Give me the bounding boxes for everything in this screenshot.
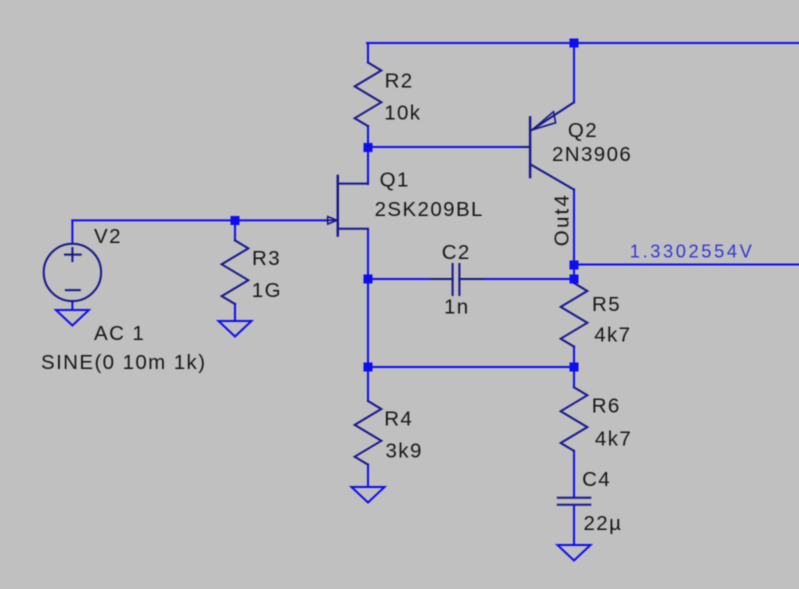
svg-text:4k7: 4k7 <box>594 324 631 347</box>
svg-text:1G: 1G <box>252 279 282 302</box>
svg-text:2SK209BL: 2SK209BL <box>375 198 484 221</box>
svg-text:Out4: Out4 <box>551 193 574 246</box>
svg-text:V2: V2 <box>94 225 122 248</box>
svg-text:SINE(0 10m 1k): SINE(0 10m 1k) <box>41 351 206 374</box>
svg-text:AC 1: AC 1 <box>94 322 145 345</box>
svg-text:R5: R5 <box>592 293 621 316</box>
svg-text:C2: C2 <box>442 241 471 264</box>
svg-text:1n: 1n <box>444 295 470 318</box>
svg-text:3k9: 3k9 <box>386 440 423 463</box>
svg-text:Q1: Q1 <box>380 168 410 191</box>
svg-text:R3: R3 <box>252 247 281 270</box>
svg-text:22µ: 22µ <box>584 512 623 535</box>
svg-text:R2: R2 <box>385 69 414 92</box>
svg-text:C4: C4 <box>582 468 611 491</box>
svg-text:R4: R4 <box>384 407 413 430</box>
svg-text:4k7: 4k7 <box>595 428 632 451</box>
svg-text:10k: 10k <box>384 101 421 124</box>
svg-text:2N3906: 2N3906 <box>552 143 632 166</box>
svg-text:Q2: Q2 <box>568 119 598 142</box>
svg-text:R6: R6 <box>592 394 621 417</box>
svg-text:1.3302554V: 1.3302554V <box>630 241 755 262</box>
